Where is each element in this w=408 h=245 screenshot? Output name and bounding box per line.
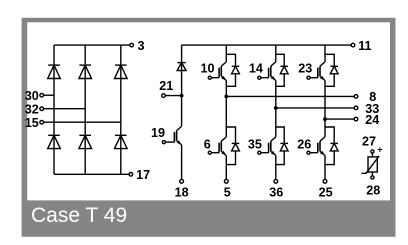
wire: rectifier column 2 (84, 45, 86, 174)
wire: phase U output line (terminal 8) (226, 95, 354, 97)
junction: phase V mid (274, 106, 278, 110)
svg-text:24: 24 (365, 113, 379, 127)
svg-text:35: 35 (248, 137, 262, 151)
wire: rectifier column 3 (120, 45, 122, 174)
diode D13 (antiparallel, lower W) (325, 127, 338, 165)
svg-text:6: 6 (204, 137, 211, 151)
wire: terminal 21 line (165, 95, 181, 97)
svg-text:25: 25 (319, 185, 333, 199)
svg-text:32: 32 (25, 102, 39, 116)
wire: input line terminal 32 (44, 108, 86, 110)
diode D7 (brake chopper) (177, 63, 186, 71)
svg-text:5: 5 (224, 185, 231, 199)
terminal circle 25 (323, 179, 327, 183)
svg-text:18: 18 (175, 185, 189, 199)
svg-text:26: 26 (297, 137, 311, 151)
diode D9 (antiparallel, upper V) (276, 54, 288, 86)
wire: rectifier column 1 (53, 45, 55, 174)
diode D1 (rectifier top, column 1) (48, 65, 61, 78)
diode D3 (rectifier top, column 3) (115, 65, 128, 78)
terminal circle 32 (40, 107, 44, 111)
junction: 21 to chopper column (180, 94, 184, 98)
wire: chopper emitter to terminal 18 (181, 145, 183, 180)
svg-text:27: 27 (362, 135, 376, 149)
wire: input line terminal 30 (44, 94, 55, 96)
svg-text:28: 28 (366, 184, 380, 198)
terminal circle 17 (129, 173, 133, 177)
terminal circle 36 (274, 179, 278, 183)
wire: phase U column (225, 45, 227, 179)
diode D4 (rectifier bottom, column 1) (48, 135, 61, 148)
diode D10 (antiparallel, upper W) (325, 54, 338, 86)
diode D8 (antiparallel, upper U) (226, 54, 239, 86)
wire: phase W output line (terminal 24) (325, 118, 354, 120)
svg-text:15: 15 (25, 116, 39, 130)
junction: phase W mid (323, 117, 327, 121)
wire: phase V column (275, 45, 277, 179)
terminal circle 11 (351, 43, 355, 47)
transistor Q4 IGBT lower U (pin 6 gate) (208, 137, 226, 156)
svg-text:17: 17 (136, 168, 150, 182)
svg-text:+: + (377, 145, 382, 155)
terminal circle 5 (224, 179, 228, 183)
transistor Q6 IGBT lower W (pin 26 gate) (307, 137, 325, 156)
transistor Q3 IGBT upper W (pin 23 gate) (307, 62, 325, 81)
svg-text:19: 19 (151, 126, 165, 140)
svg-text:11: 11 (358, 39, 371, 53)
transistor Q7 IGBT (pin 19 gate) (162, 126, 181, 145)
wire: phase W column (324, 45, 326, 179)
svg-text:10: 10 (200, 62, 214, 76)
wire: phase V output line (terminal 33) (276, 107, 354, 109)
wire: input line terminal 15 (44, 121, 121, 123)
diode D6 (rectifier bottom, column 3) (115, 135, 128, 148)
diode D11 (antiparallel, lower U) (226, 127, 239, 165)
diode D5 (rectifier bottom, column 2) (79, 135, 92, 148)
svg-text:14: 14 (249, 62, 263, 76)
terminal circle 33 (354, 106, 358, 110)
thermistor R1 (NTC, pins 27/28) (362, 150, 380, 179)
diode D12 (antiparallel, lower V) (276, 127, 288, 165)
junction: phase U mid (224, 95, 228, 99)
wire: rectifier top bus (DC+) (54, 44, 130, 46)
terminal circle 3 (130, 43, 134, 47)
svg-text:23: 23 (298, 62, 312, 76)
transistor Q2 IGBT upper V (pin 14 gate) (258, 62, 276, 81)
wire: brake chopper column upper (181, 45, 183, 126)
terminal circle 30 (40, 93, 44, 97)
svg-text:36: 36 (269, 185, 283, 199)
svg-text:21: 21 (159, 79, 173, 93)
terminal circle 18 (180, 179, 184, 183)
terminal circle 24 (354, 117, 358, 121)
svg-text:Case T 49: Case T 49 (31, 204, 127, 227)
transistor Q5 IGBT lower V (pin 35 gate) (258, 137, 276, 156)
diode D2 (rectifier top, column 2) (79, 65, 92, 78)
transistor Q1 IGBT upper U (pin 10 gate) (208, 62, 226, 81)
terminal circle 15 (40, 120, 44, 124)
svg-text:3: 3 (138, 39, 145, 53)
svg-text:30: 30 (25, 89, 39, 103)
terminal circle 21 (162, 94, 166, 98)
terminal circle 8 (354, 95, 358, 99)
wire: inverter top bus (DC+) (182, 44, 352, 46)
wire: rectifier bottom bus (DC-) (54, 173, 129, 175)
